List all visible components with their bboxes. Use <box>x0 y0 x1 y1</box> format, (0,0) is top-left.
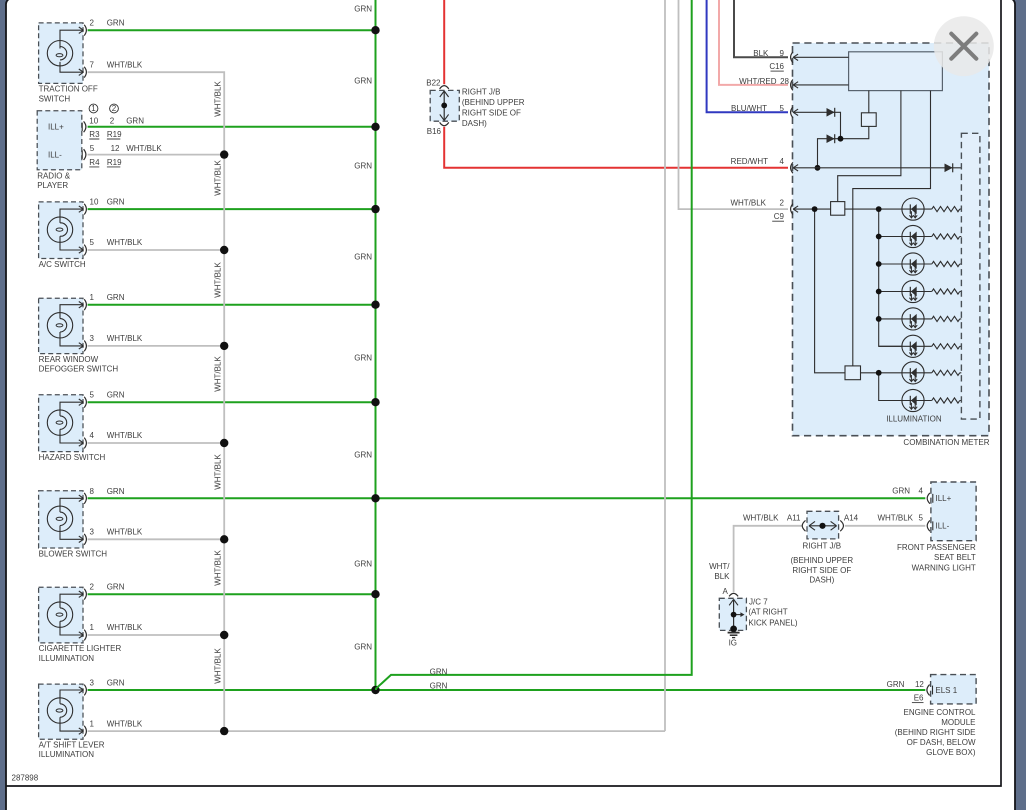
wire GRN row 7 <box>88 593 376 595</box>
LED ladder bus lower <box>861 373 903 401</box>
junction LED bus <box>876 289 882 295</box>
svg-text:RED/WHT: RED/WHT <box>731 157 768 166</box>
traction off switch <box>39 19 143 104</box>
svg-text:GRN: GRN <box>354 252 372 261</box>
svg-text:287898: 287898 <box>12 774 39 783</box>
radio and player unit R3/R19 <box>37 104 162 190</box>
wire pin9 to block <box>793 56 848 58</box>
svg-text:4: 4 <box>90 431 95 440</box>
svg-text:PLAYER: PLAYER <box>37 181 68 190</box>
wire WHT/BLK row 4 <box>88 345 225 347</box>
resistor R4 <box>924 289 961 294</box>
A/T shift lever illumination <box>39 679 143 760</box>
illumination LED 8 <box>902 389 924 411</box>
svg-text:RIGHT SIDE OF: RIGHT SIDE OF <box>792 566 851 575</box>
svg-text:IG: IG <box>729 638 737 647</box>
blower switch <box>39 487 143 559</box>
connector B22 <box>426 78 449 89</box>
junction gray bus y=635 <box>220 631 228 639</box>
svg-text:WHT/BLK: WHT/BLK <box>213 81 222 117</box>
svg-text:9: 9 <box>780 49 785 58</box>
resistor R5 <box>924 316 961 321</box>
svg-text:2: 2 <box>110 117 115 126</box>
svg-text:8: 8 <box>90 487 95 496</box>
svg-text:RIGHT J/B: RIGHT J/B <box>803 542 842 551</box>
right J/B A11-A14 connector <box>802 511 843 539</box>
svg-text:A/C SWITCH: A/C SWITCH <box>39 260 86 269</box>
wire GRN row 5 <box>88 401 376 403</box>
svg-text:12: 12 <box>111 144 120 153</box>
wire WHT/BLK riser 1 (to A/T shift row) <box>664 0 666 731</box>
meter pin 4 <box>791 162 799 173</box>
svg-text:GRN: GRN <box>354 353 372 362</box>
junction green bus y=402 <box>371 398 379 406</box>
gray bus wire WHT/BLK vertical <box>88 72 225 731</box>
svg-text:WHT/BLK: WHT/BLK <box>730 199 766 208</box>
resistor R2 <box>924 234 961 239</box>
engine control module connector ELS 1 <box>927 675 976 704</box>
svg-text:WHT/BLK: WHT/BLK <box>107 528 143 537</box>
wire block leg B to square U2 <box>853 91 931 366</box>
svg-text:ILL-: ILL- <box>936 522 950 531</box>
svg-text:WHT/BLK: WHT/BLK <box>107 238 143 247</box>
svg-text:(AT RIGHT: (AT RIGHT <box>748 608 787 617</box>
junction gray bus y=539 <box>220 535 228 543</box>
svg-text:WHT/BLK: WHT/BLK <box>107 431 143 440</box>
wire WHT/BLK riser 2 (to meter pin 2) <box>679 0 789 209</box>
illumination LED 2 <box>902 225 924 247</box>
svg-text:(BEHIND UPPER: (BEHIND UPPER <box>790 556 853 565</box>
svg-text:5: 5 <box>919 514 924 523</box>
svg-text:GRN: GRN <box>107 19 125 28</box>
svg-text:FRONT PASSENGER: FRONT PASSENGER <box>897 543 976 552</box>
svg-text:E6: E6 <box>914 694 924 703</box>
meter internal IC block <box>849 52 943 91</box>
svg-text:B22: B22 <box>426 78 441 87</box>
svg-text:GLOVE BOX): GLOVE BOX) <box>926 748 976 757</box>
svg-text:J/C 7: J/C 7 <box>749 598 768 607</box>
wire BLK riser to meter pin 9 <box>734 0 788 57</box>
svg-text:GRN: GRN <box>430 682 448 691</box>
svg-text:WHT/BLK: WHT/BLK <box>213 262 222 298</box>
svg-text:GRN: GRN <box>126 117 144 126</box>
right J/B B22-B16 (behind upper right side of dash) <box>430 87 525 128</box>
wire GRN blower to seat belt light <box>376 497 926 499</box>
junction LED bus <box>876 316 882 322</box>
svg-text:WHT/BLK: WHT/BLK <box>213 648 222 684</box>
svg-text:TRACTION OFF: TRACTION OFF <box>39 85 98 94</box>
svg-text:COMBINATION METER: COMBINATION METER <box>903 438 989 447</box>
junction gray bus y=443 <box>220 439 228 447</box>
illumination LED 1 <box>902 198 924 220</box>
svg-text:GRN: GRN <box>430 668 448 677</box>
svg-text:DASH): DASH) <box>809 575 834 584</box>
junction green bus y=30 <box>371 26 379 34</box>
svg-text:RADIO &: RADIO & <box>37 172 71 181</box>
junction green bus y=498 <box>371 494 379 502</box>
svg-text:GRN: GRN <box>354 5 372 14</box>
svg-text:GRN: GRN <box>107 198 125 207</box>
meter pin 28 <box>791 80 799 91</box>
diode D2 <box>827 134 835 143</box>
wire GRN A/T shift to ELS1 bottom <box>88 689 926 691</box>
svg-text:R19: R19 <box>107 158 122 167</box>
svg-text:WHT/BLK: WHT/BLK <box>213 550 222 586</box>
svg-text:WHT/BLK: WHT/BLK <box>107 334 143 343</box>
svg-text:10: 10 <box>89 117 98 126</box>
svg-text:1: 1 <box>90 293 95 302</box>
cigarette lighter illumination <box>39 583 143 663</box>
wire block leg A to square U1 <box>838 91 901 202</box>
svg-text:WARNING LIGHT: WARNING LIGHT <box>912 563 976 572</box>
svg-text:HAZARD SWITCH: HAZARD SWITCH <box>39 453 106 462</box>
svg-text:R3: R3 <box>89 130 100 139</box>
svg-text:5: 5 <box>90 391 95 400</box>
svg-text:WHT/BLK: WHT/BLK <box>213 160 222 196</box>
junction gray bus y=731 <box>220 727 228 735</box>
wire WHT/BLK row 2 <box>88 154 225 156</box>
junction LED bus <box>876 206 882 212</box>
svg-text:1: 1 <box>90 623 95 632</box>
svg-text:KICK PANEL): KICK PANEL) <box>748 619 798 628</box>
svg-text:GRN: GRN <box>107 679 125 688</box>
wire pin4 to illumination bus with diode D3 <box>793 167 961 169</box>
svg-text:ILL-: ILL- <box>48 151 62 160</box>
svg-text:10: 10 <box>90 198 99 207</box>
wire WHT/BLK row 3 <box>88 249 225 251</box>
wire LED row 6 branch <box>879 345 902 347</box>
svg-text:WHT/BLK: WHT/BLK <box>877 514 913 523</box>
junction gray bus y=155 <box>220 150 228 158</box>
ground IG <box>728 633 740 648</box>
svg-text:ENGINE CONTROL: ENGINE CONTROL <box>903 708 976 717</box>
wire BLU/WHT riser to meter pin 5 <box>707 0 788 112</box>
svg-text:(BEHIND UPPER: (BEHIND UPPER <box>462 98 525 107</box>
illumination LED 4 <box>902 280 924 302</box>
small square component U3 <box>861 113 876 127</box>
meter pin 2 <box>791 204 799 215</box>
svg-text:2: 2 <box>90 19 95 28</box>
svg-text:BLU/WHT: BLU/WHT <box>731 104 767 113</box>
wire pin2 row C9 <box>793 208 902 210</box>
junction dot pin2 left <box>812 206 818 212</box>
svg-text:WHT/: WHT/ <box>709 562 730 571</box>
meter pin 9 <box>791 52 799 63</box>
svg-text:4: 4 <box>919 487 924 496</box>
illumination LED 5 <box>902 308 924 330</box>
wire GRN riser (to bottom bus junction) <box>376 0 692 690</box>
svg-text:WHT/BLK: WHT/BLK <box>107 60 143 69</box>
junction dot pin4 branch <box>815 165 821 171</box>
svg-text:5: 5 <box>780 104 785 113</box>
square component U1 <box>831 202 845 216</box>
svg-text:7: 7 <box>90 60 95 69</box>
wire GRN row 1 <box>88 29 376 31</box>
wire LED row 3 branch <box>879 263 902 265</box>
svg-text:ILL+: ILL+ <box>936 494 952 503</box>
wire pin5 with diode D1 <box>793 112 840 138</box>
close button <box>934 16 994 76</box>
svg-text:WHT/BLK: WHT/BLK <box>213 356 222 392</box>
wire LED row 5 branch <box>879 318 902 320</box>
svg-text:SWITCH: SWITCH <box>39 94 71 103</box>
svg-text:(BEHIND RIGHT SIDE: (BEHIND RIGHT SIDE <box>895 728 976 737</box>
svg-text:GRN: GRN <box>887 680 905 689</box>
illumination LED 6 <box>902 335 924 357</box>
wire GRN row 2 <box>88 126 376 128</box>
svg-text:1: 1 <box>91 104 96 113</box>
svg-text:1: 1 <box>90 719 95 728</box>
hazard switch <box>39 391 143 462</box>
wire LED row 4 branch <box>879 291 902 293</box>
svg-text:ILLUMINATION: ILLUMINATION <box>39 750 95 759</box>
svg-text:DASH): DASH) <box>462 119 487 128</box>
front passenger seat belt warning light <box>927 482 976 541</box>
LED ladder bus upper <box>879 209 902 346</box>
illumination LED 3 <box>902 253 924 275</box>
svg-text:DEFOGGER SWITCH: DEFOGGER SWITCH <box>39 365 119 374</box>
svg-text:ILL+: ILL+ <box>48 123 64 132</box>
meter pin 5 <box>791 107 799 118</box>
svg-text:28: 28 <box>780 77 789 86</box>
svg-text:A14: A14 <box>844 514 859 523</box>
wire RED/WHT riser from top to B22 <box>443 0 445 84</box>
wire WHT/BLK A14 to ILL- <box>845 525 926 527</box>
junction green bus y=305 <box>371 301 379 309</box>
svg-text:BLK: BLK <box>753 49 769 58</box>
junction gray bus y=346 <box>220 342 228 350</box>
wire pin28 to block <box>793 84 848 86</box>
svg-text:WHT/BLK: WHT/BLK <box>743 514 779 523</box>
wire branch down from pin2 row <box>815 209 845 373</box>
svg-text:A/T SHIFT LEVER: A/T SHIFT LEVER <box>39 741 105 750</box>
svg-text:RIGHT J/B: RIGHT J/B <box>462 87 501 96</box>
svg-text:WHT/BLK: WHT/BLK <box>126 144 162 153</box>
svg-text:A: A <box>722 587 728 596</box>
rear window defogger switch <box>39 293 143 373</box>
A/C switch <box>39 198 143 269</box>
wire WHT/RED riser to meter pin 28 <box>719 0 788 85</box>
svg-text:5: 5 <box>90 238 95 247</box>
svg-text:WHT/BLK: WHT/BLK <box>107 623 143 632</box>
svg-text:REAR WINDOW: REAR WINDOW <box>39 355 99 364</box>
svg-text:GRN: GRN <box>107 293 125 302</box>
svg-text:RIGHT SIDE OF: RIGHT SIDE OF <box>462 108 521 117</box>
wire GRN row 3 <box>88 208 376 210</box>
svg-text:2: 2 <box>90 583 95 592</box>
svg-text:OF DASH, BELOW: OF DASH, BELOW <box>907 738 976 747</box>
junction dot D-branch <box>838 136 844 142</box>
wire WHT/BLK row 5 <box>88 442 225 444</box>
junction green bus y=594 <box>371 590 379 598</box>
junction green bus y=127 <box>371 123 379 131</box>
junction LED bus <box>876 370 882 376</box>
wire GRN row 6 <box>88 497 376 499</box>
svg-text:SEAT BELT: SEAT BELT <box>934 553 976 562</box>
wire LED row 2 branch <box>879 236 902 238</box>
svg-text:WHT/BLK: WHT/BLK <box>107 719 143 728</box>
illumination bus dashed box <box>961 133 980 419</box>
wire RED/WHT from B16 to combination meter pin 4 <box>444 127 788 168</box>
resistor R3 <box>924 261 961 266</box>
svg-text:3: 3 <box>90 679 95 688</box>
wire square U3 to block <box>868 91 870 113</box>
svg-text:GRN: GRN <box>107 487 125 496</box>
connector B16 <box>427 122 449 136</box>
svg-text:ILLUMINATION: ILLUMINATION <box>886 415 942 424</box>
junction green bus y=209 <box>371 205 379 213</box>
diode D3 <box>945 163 953 172</box>
svg-text:3: 3 <box>90 528 95 537</box>
svg-text:R19: R19 <box>107 130 122 139</box>
junction green bus y=690 <box>371 686 379 694</box>
resistor R7 <box>924 370 961 375</box>
svg-text:ILLUMINATION: ILLUMINATION <box>39 654 95 663</box>
square component U2 <box>845 366 861 380</box>
svg-text:2: 2 <box>780 199 785 208</box>
svg-text:C9: C9 <box>774 212 785 221</box>
svg-text:C16: C16 <box>769 62 784 71</box>
wire WHT/BLK A/T shift to right riser <box>88 730 665 732</box>
svg-text:GRN: GRN <box>107 583 125 592</box>
svg-text:GRN: GRN <box>354 451 372 460</box>
combination meter box <box>793 43 990 436</box>
wire WHT/BLK JC7 to A11 <box>734 526 802 593</box>
green bus wire GRN vertical <box>375 0 377 690</box>
svg-text:2: 2 <box>112 104 117 113</box>
wire WHT/BLK row 7 <box>88 634 225 636</box>
svg-text:BLK: BLK <box>714 572 730 581</box>
svg-text:A11: A11 <box>787 514 801 523</box>
svg-text:4: 4 <box>780 157 785 166</box>
svg-text:GRN: GRN <box>354 560 372 569</box>
svg-text:5: 5 <box>90 144 95 153</box>
svg-text:ELS 1: ELS 1 <box>935 686 957 695</box>
svg-text:CIGARETTE LIGHTER: CIGARETTE LIGHTER <box>39 644 122 653</box>
illumination LED 7 <box>902 362 924 384</box>
resistor R1 <box>924 207 961 212</box>
junction LED bus <box>876 234 882 240</box>
J/C 7 (at right kick panel) <box>719 598 746 632</box>
junction gray bus y=250 <box>220 246 228 254</box>
wire branch with diode D2 to pin4 row <box>818 139 841 168</box>
svg-text:GRN: GRN <box>354 642 372 651</box>
wire WHT/BLK row 6 <box>88 538 225 540</box>
wire dot-square link <box>841 126 869 138</box>
wire GRN row 4 <box>88 304 376 306</box>
svg-text:MODULE: MODULE <box>941 718 975 727</box>
svg-text:GRN: GRN <box>892 487 910 496</box>
svg-text:WHT/RED: WHT/RED <box>739 77 777 86</box>
svg-text:B16: B16 <box>427 127 442 136</box>
svg-text:WHT/BLK: WHT/BLK <box>213 454 222 490</box>
svg-text:3: 3 <box>90 334 95 343</box>
svg-text:GRN: GRN <box>107 391 125 400</box>
svg-text:GRN: GRN <box>354 77 372 86</box>
resistor R6 <box>924 344 961 349</box>
svg-text:12: 12 <box>915 680 924 689</box>
svg-text:GRN: GRN <box>354 162 372 171</box>
junction LED bus <box>876 261 882 267</box>
resistor R8 <box>924 398 961 403</box>
svg-text:R4: R4 <box>89 158 100 167</box>
diode D1 <box>827 108 835 117</box>
svg-text:BLOWER SWITCH: BLOWER SWITCH <box>39 549 108 558</box>
